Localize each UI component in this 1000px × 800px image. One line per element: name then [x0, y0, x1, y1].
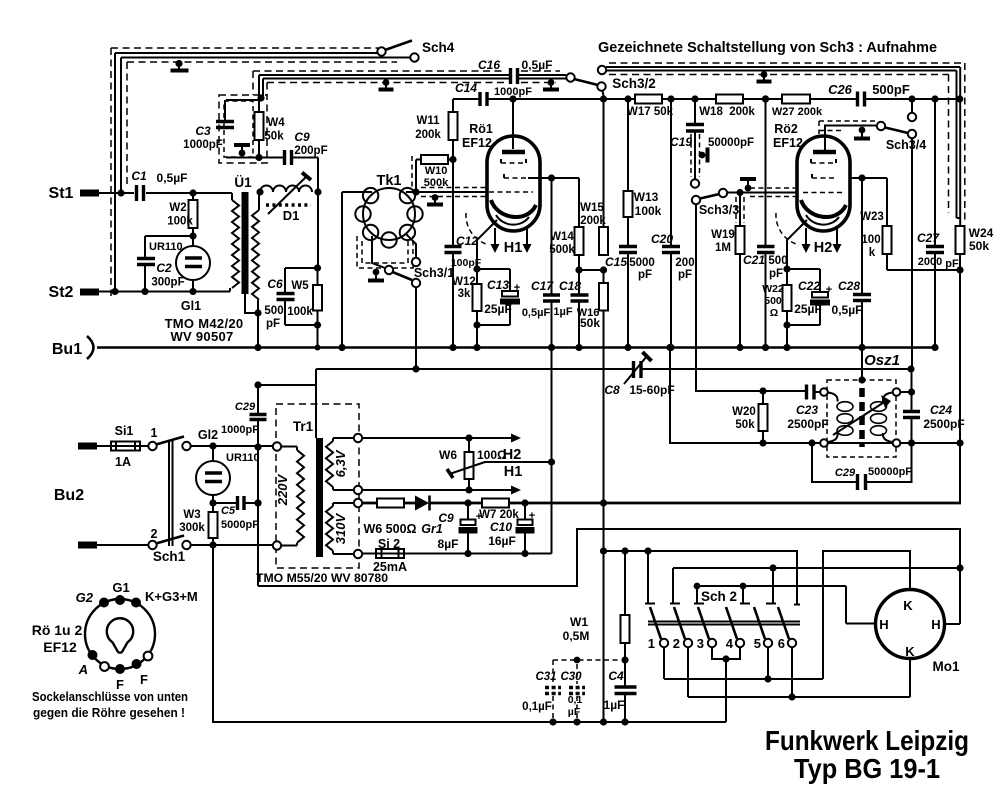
svg-text:C17: C17 [531, 279, 554, 293]
resistor W10 [416, 160, 453, 193]
node C6/W5 top [314, 264, 321, 271]
resistor W6 500 ohm [377, 499, 404, 508]
resistor W2 [192, 193, 194, 246]
svg-text:50000pF: 50000pF [868, 466, 912, 478]
anode Ro2 to Sch3/4 [825, 126, 877, 152]
switch Sch1 coupling bar [169, 440, 173, 546]
node Tk1 left on bus [338, 344, 345, 351]
node rail C30 [573, 718, 580, 725]
node bridge [694, 583, 701, 590]
transformer Osz1 left winding [820, 388, 828, 396]
node osc top [908, 388, 915, 395]
heater arrows H2 [806, 228, 837, 246]
svg-text:Sch3/4: Sch3/4 [886, 138, 926, 152]
resistor W17 [635, 95, 662, 104]
capacitor C17 [551, 178, 553, 348]
shield dashed box around C3 outer [219, 95, 267, 163]
node Sch3/4 on HT bus [908, 95, 915, 102]
node C20 on bus [667, 344, 674, 351]
node cathode Ro2 [783, 265, 790, 272]
svg-text:G2: G2 [76, 590, 94, 605]
wire Tk1 bottom left to switch [372, 236, 385, 268]
ground right bundle [761, 71, 768, 78]
svg-text:pF: pF [678, 269, 692, 281]
svg-text:0,1µF: 0,1µF [522, 701, 552, 713]
svg-text:W5: W5 [291, 280, 309, 292]
svg-text:W24: W24 [969, 226, 994, 240]
resistor W18 [716, 95, 743, 104]
svg-text:500k: 500k [549, 244, 575, 256]
resistor W5 [317, 268, 319, 347]
node C2 bottom [141, 288, 148, 295]
svg-text:Typ BG 19-1: Typ BG 19-1 [794, 753, 940, 784]
svg-text:1A: 1A [115, 455, 131, 469]
svg-text:Funkwerk Leipzig: Funkwerk Leipzig [765, 725, 969, 756]
node W10/W11/C12 [449, 156, 456, 163]
svg-text:W17 50k: W17 50k [627, 106, 674, 118]
svg-text:H: H [931, 617, 940, 632]
node C5 right [254, 499, 261, 506]
svg-text:5: 5 [754, 636, 761, 651]
svg-text:0,5µF: 0,5µF [522, 58, 553, 72]
node W14 bottom [575, 266, 582, 273]
node C12 on bus [449, 344, 456, 351]
svg-text:F: F [140, 672, 148, 687]
capacitor C20 [670, 99, 672, 246]
node W12 on bus [473, 344, 480, 351]
node rail C4 [621, 718, 628, 725]
arrow tuning slug [833, 401, 886, 435]
capacitor C9 electrolytic [467, 503, 469, 554]
svg-text:W13: W13 [634, 190, 659, 204]
capacitor C12 [452, 160, 454, 247]
resistor W14 [578, 178, 580, 270]
ground Tk1 shield [373, 269, 380, 276]
node W24 on HT bus [956, 95, 963, 102]
core Tr1 [316, 438, 323, 557]
svg-text:0,5µF: 0,5µF [522, 307, 551, 319]
terminal Sch2-6 [794, 604, 800, 606]
node W6 pot bottom [465, 486, 472, 493]
switch Sch3/2 [566, 73, 574, 81]
capacitor C29 1000pF [257, 385, 259, 447]
transformer U1 right winding [252, 210, 259, 300]
fuse Si2 [362, 553, 552, 555]
node rail end [600, 718, 607, 725]
node W22 bottom [783, 321, 790, 328]
capacitor C23 [807, 385, 815, 400]
node C15 on bus [624, 344, 631, 351]
wire contact6 drop [791, 647, 793, 697]
svg-text:Ω: Ω [770, 307, 778, 319]
node W19 tap [736, 189, 743, 196]
svg-text:100k: 100k [287, 306, 313, 318]
svg-text:W1: W1 [570, 615, 588, 629]
ground shield top left [175, 60, 182, 67]
svg-text:25mA: 25mA [373, 560, 407, 574]
winding Tr1 310V [333, 503, 354, 554]
svg-text:C16: C16 [478, 58, 500, 72]
svg-text:50000pF: 50000pF [708, 137, 754, 149]
svg-text:0,1: 0,1 [568, 694, 583, 706]
terminal Sch2-3/4 bridge [694, 586, 750, 604]
svg-text:W23: W23 [860, 211, 884, 223]
svg-text:C10: C10 [490, 520, 512, 534]
contact circles Sch2 [660, 639, 668, 647]
grid g2 Ro1 [504, 177, 528, 179]
svg-text:K: K [903, 598, 913, 613]
capacitor C1 [137, 185, 144, 201]
terminal Tr1 heater top [354, 434, 362, 442]
resistor W15 [603, 99, 605, 227]
svg-text:2500pF: 2500pF [923, 417, 964, 431]
switch Sch2 levers [650, 607, 789, 639]
node Tk1 grid wire [412, 188, 419, 195]
wire HT bus y=99 [487, 98, 962, 100]
fuse Si1 [97, 445, 148, 447]
svg-text:50k: 50k [264, 131, 284, 143]
svg-text:pF: pF [638, 269, 652, 281]
svg-text:25µF: 25µF [484, 302, 512, 316]
switch Sch3/1 [385, 266, 393, 274]
ground on shield mid [383, 79, 390, 86]
plug Bu2 bottom [78, 542, 97, 549]
node W20 bottom [759, 439, 766, 446]
node C21 on bus [762, 344, 769, 351]
wire C2 top link [145, 236, 193, 257]
node bus tap for 443 [666, 344, 673, 351]
svg-text:C15: C15 [605, 255, 627, 269]
svg-text:C23: C23 [796, 403, 818, 417]
shield dashed on Ro2 grid wire [750, 188, 795, 197]
wire bias line y=369 [316, 368, 911, 370]
wire bottom supply rail y=586 and jog to y=529 [258, 529, 960, 624]
node C9 bottom [464, 550, 471, 557]
transformer U1 left winding [232, 200, 239, 288]
capacitor C19 [694, 99, 696, 125]
svg-text:Gl1: Gl1 [181, 299, 201, 313]
svg-text:Gl2: Gl2 [198, 428, 218, 442]
node W22 on bus [783, 344, 790, 351]
resistor W7 [482, 499, 509, 508]
svg-text:Bu1: Bu1 [52, 341, 82, 358]
wire Sch3/1 drop to bias line [415, 287, 417, 369]
jack Bu1 [87, 336, 94, 359]
svg-text:200k: 200k [580, 215, 606, 227]
svg-text:C19: C19 [670, 135, 692, 149]
wire Sch3/4 drop to oscillator [911, 138, 914, 392]
svg-text:C27: C27 [917, 231, 940, 245]
svg-text:5000pF: 5000pF [221, 519, 259, 531]
node D1 right [314, 188, 321, 195]
winding Tr1 6.3V [333, 438, 354, 490]
node C10 elco tap [521, 499, 528, 506]
node osc bottom [908, 439, 915, 446]
svg-text:500: 500 [764, 295, 782, 307]
shield dashed box oscillator [827, 380, 896, 457]
svg-text:Rö1: Rö1 [469, 122, 493, 136]
shield dashed inner left [127, 62, 397, 188]
svg-text:EF12: EF12 [462, 136, 492, 150]
wire shielded pair to C16 [259, 75, 509, 96]
svg-text:0,5M: 0,5M [563, 629, 590, 643]
node C10 bottom [521, 550, 528, 557]
ground inverted on grid shield [740, 177, 756, 181]
wire shielded pair to Sch4 [115, 53, 411, 292]
svg-text:Rö 1u 2: Rö 1u 2 [32, 622, 83, 638]
svg-text:+: + [826, 284, 832, 296]
node contact6 join [788, 693, 795, 700]
svg-text:W15: W15 [580, 202, 604, 214]
wire Tk1 left lead [342, 192, 372, 348]
svg-text:Sch3/3: Sch3/3 [699, 203, 739, 217]
svg-text:500k: 500k [424, 177, 449, 189]
svg-text:H1: H1 [504, 464, 523, 480]
node C9 elco tap [464, 499, 471, 506]
node W5 on bus [315, 345, 321, 351]
svg-text:C29: C29 [235, 401, 256, 413]
svg-text:C4: C4 [608, 669, 624, 683]
diode Gr1 [415, 496, 429, 511]
svg-text:W27 200k: W27 200k [772, 106, 823, 118]
node C23 side tap [808, 439, 815, 446]
node C19 on HT bus [691, 95, 698, 102]
svg-text:W18 200k: W18 200k [699, 106, 755, 118]
node W27 left [762, 95, 769, 102]
svg-text:C9: C9 [438, 511, 454, 525]
ground at C16 [548, 79, 555, 86]
svg-text:W3: W3 [183, 509, 200, 521]
svg-text:200: 200 [675, 257, 694, 269]
node g2 [548, 174, 555, 181]
svg-text:Bu2: Bu2 [54, 487, 84, 504]
wire wiper drop [551, 348, 553, 554]
svg-text:500: 500 [264, 305, 283, 317]
capacitor C10 electrolytic [524, 503, 526, 554]
svg-text:6: 6 [778, 636, 785, 651]
wire motor K feed y=697 [688, 658, 910, 697]
capacitor C28 [861, 178, 863, 294]
svg-text:C20: C20 [651, 232, 673, 246]
capacitor C24 [903, 412, 920, 418]
node W4 top [257, 94, 264, 101]
svg-text:1000pF: 1000pF [183, 139, 223, 151]
grid g2 Ro2 [812, 177, 837, 179]
svg-text:2500pF: 2500pF [787, 417, 828, 431]
node W15 bottom [600, 266, 607, 273]
svg-text:C26: C26 [828, 82, 853, 97]
terminal Sch2-1 [645, 551, 655, 604]
svg-text:Gezeichnete Schaltstellung von: Gezeichnete Schaltstellung von Sch3 : Au… [598, 39, 937, 56]
svg-text:1M: 1M [715, 242, 731, 254]
wire C16 to Sch3/2 [518, 75, 567, 79]
capacitor C5 [213, 502, 237, 504]
wire shielded pair right top [606, 67, 960, 226]
svg-text:1: 1 [151, 426, 158, 440]
capacitor C2 [137, 259, 155, 265]
svg-text:K: K [905, 644, 915, 659]
svg-text:2000: 2000 [918, 256, 942, 268]
svg-text:16µF: 16µF [488, 534, 516, 548]
svg-text:pF: pF [769, 268, 783, 280]
heater arrows H1 [495, 228, 527, 246]
node U1 bottom on bus [254, 344, 261, 351]
capacitor C31 dashed [552, 660, 554, 722]
svg-text:Sch3/1: Sch3/1 [414, 266, 454, 280]
svg-text:2: 2 [151, 527, 158, 541]
wire Sch3/3 to Ro2 grid [727, 192, 797, 194]
node dashed C30 [574, 657, 581, 664]
svg-text:Tk1: Tk1 [377, 173, 402, 189]
grid g1 Ro1 [489, 191, 533, 193]
resistor W16 [603, 270, 605, 283]
ground on grid shield [432, 194, 439, 201]
capacitor C22 electrolytic [787, 269, 820, 325]
switch Sch4 [377, 47, 385, 55]
svg-text:H2: H2 [814, 240, 833, 256]
terminal Sch2-5 [769, 564, 776, 571]
svg-text:25µF: 25µF [794, 302, 822, 316]
wire contacts 3+4 common [712, 647, 740, 722]
svg-text:W20: W20 [732, 406, 756, 418]
node bias line end right [907, 365, 914, 372]
node rail C31 [549, 718, 556, 725]
node C27 on HT bus [931, 95, 938, 102]
svg-text:C29: C29 [835, 467, 856, 479]
node W1 branch [621, 547, 628, 554]
capacitor C9 200pF [226, 158, 318, 269]
svg-text:Ü1: Ü1 [234, 175, 252, 190]
resistor W27 [782, 95, 810, 104]
svg-text:Sch3/2: Sch3/2 [612, 76, 656, 91]
svg-text:W19: W19 [711, 229, 735, 241]
shield dashed pair on grid wire [412, 156, 486, 197]
wire contact5 drop [767, 647, 769, 679]
node anode feed [509, 95, 516, 102]
node wiper line [548, 458, 555, 465]
svg-text:0,5µF: 0,5µF [832, 303, 863, 317]
node Sch1 out [209, 541, 216, 548]
svg-text:C5: C5 [221, 505, 236, 517]
node Gl2 top [209, 442, 216, 449]
terminal Tr1 heater bottom [354, 486, 362, 494]
node contact5 join [764, 675, 771, 682]
svg-text:Mo1: Mo1 [933, 659, 960, 674]
grid g3 Ro2 [811, 162, 836, 164]
variometer D1 [260, 186, 312, 192]
capacitor C29 50000pF [812, 443, 912, 482]
svg-text:A: A [78, 662, 88, 677]
svg-text:2: 2 [673, 636, 680, 651]
ground rotated at C19 [699, 152, 706, 159]
anode Ro1 [512, 99, 514, 149]
wire B+ riser x=960 right side [959, 254, 961, 503]
node 3/4 common [722, 655, 729, 662]
capacitor C21 [765, 99, 767, 246]
svg-text:K+G3+M: K+G3+M [145, 589, 198, 604]
svg-text:C28: C28 [838, 279, 860, 293]
svg-text:UR110: UR110 [226, 452, 260, 464]
svg-text:8µF: 8µF [438, 537, 459, 551]
svg-text:UR110: UR110 [149, 241, 183, 253]
svg-text:W12: W12 [452, 276, 476, 288]
grid g1 Ro2 [803, 192, 845, 194]
node y=551 branch [600, 547, 607, 554]
resistor W12 [473, 284, 482, 311]
svg-text:3k: 3k [458, 288, 471, 300]
node St1/shield [117, 189, 124, 196]
svg-text:Sch4: Sch4 [422, 40, 455, 55]
node dashed at W1 line [621, 656, 628, 663]
terminal Tr1 primary top [273, 442, 281, 450]
motor Mo1 [876, 590, 945, 659]
svg-text:WV 90507: WV 90507 [170, 329, 233, 344]
transformer Osz1 core [859, 388, 865, 447]
svg-text:1µF: 1µF [604, 698, 625, 712]
svg-text:EF12: EF12 [773, 136, 803, 150]
shield dashed on anode wire [819, 121, 875, 134]
svg-text:W6: W6 [439, 448, 457, 462]
wire bottom rail y=722 from Sch1 [213, 545, 726, 722]
svg-text:pF: pF [945, 258, 959, 270]
trimmer C8 [634, 361, 642, 378]
svg-text:6,3V: 6,3V [333, 449, 348, 477]
socket pins filled [99, 598, 109, 608]
resistor W4 [258, 98, 260, 158]
wire contact2 drop [687, 647, 689, 697]
wire Tk1 bottom right to contact [406, 234, 416, 258]
plug Bu2 top [78, 443, 97, 450]
shield dashed arc at Ro2 [776, 213, 799, 245]
resistor W13 [627, 99, 629, 246]
switch Sch1 lower [97, 544, 148, 546]
svg-text:St2: St2 [49, 284, 74, 301]
svg-text:TMO M55/20 WV 80780: TMO M55/20 WV 80780 [256, 571, 388, 585]
socket key [107, 618, 133, 652]
wire Sch3/3 oscillator feed [696, 204, 806, 391]
svg-text:0,5µF: 0,5µF [157, 171, 188, 185]
wire ground bus y=347 (Bu1) [97, 346, 936, 349]
cathode Ro1 [491, 200, 536, 217]
capacitor C4 [615, 687, 637, 694]
svg-text:W14: W14 [550, 231, 574, 243]
tube Gl1 [176, 246, 210, 280]
capacitor C13 electrolytic [477, 269, 510, 325]
wire osc top right link [900, 391, 912, 393]
svg-text:1: 1 [648, 636, 655, 651]
shield dashed right top [609, 63, 965, 222]
svg-text:W2: W2 [169, 202, 186, 214]
shield dashed arc at Ro1 [466, 213, 489, 245]
svg-text:C24: C24 [930, 403, 952, 417]
terminal Tr1 HT top [354, 499, 362, 507]
svg-text:C30: C30 [560, 671, 582, 683]
svg-text:H: H [879, 617, 888, 632]
tube Gl2 [212, 446, 214, 461]
svg-text:H2: H2 [503, 447, 522, 463]
svg-text:C3: C3 [195, 124, 211, 138]
shield dashed box Tr1 [276, 404, 359, 568]
node W2 top [189, 189, 196, 196]
capacitor C6 [285, 268, 318, 325]
svg-text:300pF: 300pF [151, 277, 184, 289]
node W2/C2/Gl1 [189, 232, 196, 239]
wire wiper to hum pot return [484, 461, 552, 463]
node B+ junction [600, 499, 607, 506]
wire mains riser x=258 [257, 447, 259, 586]
wire switched line y=551 [604, 551, 798, 604]
terminal Tr1 HT bottom [354, 550, 362, 558]
